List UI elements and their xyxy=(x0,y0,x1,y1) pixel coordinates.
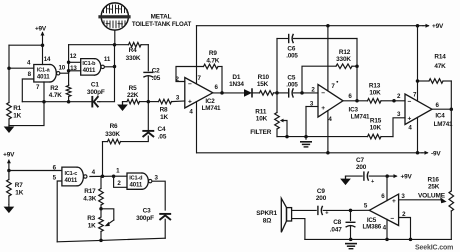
label TOILET-TANK FLOAT xyxy=(132,21,192,28)
label IC4 xyxy=(435,113,445,120)
svg-text:LM741: LM741 xyxy=(351,113,370,120)
label C5 xyxy=(287,75,295,82)
svg-text:10K: 10K xyxy=(369,90,381,97)
wire C2 column lower xyxy=(147,77,149,102)
label R9 value 4.7K xyxy=(206,57,219,64)
wire node up to C6 row xyxy=(276,39,278,93)
svg-text:200: 200 xyxy=(316,195,327,202)
wire IC3 pin4 to -9V rail xyxy=(327,111,329,153)
ground at C7 xyxy=(341,176,350,185)
svg-text:METAL: METAL xyxy=(151,14,172,21)
resistor R4 xyxy=(129,42,149,47)
svg-text:SPKR1: SPKR1 xyxy=(256,210,277,217)
svg-text:R10: R10 xyxy=(258,74,270,81)
svg-text:R2: R2 xyxy=(50,85,58,92)
node IC3 pin2 junction xyxy=(300,91,304,95)
label SPKR1 xyxy=(256,210,277,217)
IC5 plus sign xyxy=(392,198,396,205)
node R3 bottom on rail xyxy=(99,239,103,243)
label R10 value 15K xyxy=(257,81,269,88)
+9V supply top-left xyxy=(35,25,47,45)
label R8 value 1K xyxy=(160,114,168,121)
IC2 plus sign xyxy=(188,99,192,106)
pin label 11 xyxy=(104,56,111,63)
wire R13 into IC4 pin2 xyxy=(394,100,405,102)
node R2 bottom on C1 line xyxy=(67,100,71,104)
capacitor C7 xyxy=(346,172,388,185)
wire IC4 output xyxy=(432,108,451,110)
-9V rail xyxy=(197,152,422,154)
node IC4 output xyxy=(450,107,454,111)
ground under IC3 pin3 xyxy=(301,142,311,147)
watermark SeekIC.com xyxy=(415,245,453,252)
wire R15 riser to IC4 pin3 xyxy=(393,118,405,137)
resistor R7 xyxy=(7,171,12,205)
wire C9 node to IC5 pin5 xyxy=(351,209,370,211)
svg-text:4.7K: 4.7K xyxy=(49,92,62,99)
label IC5 xyxy=(367,217,377,224)
pin label 3 IC1-d xyxy=(155,175,159,182)
svg-text:D1: D1 xyxy=(232,74,240,81)
label IC3 LM741 xyxy=(351,113,370,120)
node IC3 output/C6/R12 xyxy=(355,99,359,103)
svg-text:300pF: 300pF xyxy=(136,215,154,222)
IC3 plus sign xyxy=(321,105,325,112)
svg-text:6: 6 xyxy=(436,102,440,109)
wire IC1-d output to C3 column xyxy=(152,181,165,210)
svg-text:7: 7 xyxy=(36,84,40,91)
wire C4 column xyxy=(147,102,149,130)
wire C5 to IC3 pin2 xyxy=(302,92,318,94)
node R14 tap on +9V drop xyxy=(416,79,420,83)
nand gate IC1-c 4011 xyxy=(62,167,87,186)
svg-text:200: 200 xyxy=(356,164,367,171)
wire IC3 pin3 to ground xyxy=(305,107,307,140)
svg-text:C7: C7 xyxy=(356,157,364,164)
label C7 xyxy=(356,157,364,164)
float stem wire xyxy=(114,30,116,45)
svg-text:4: 4 xyxy=(27,60,31,67)
wire IC2 pin2 feedback riser xyxy=(176,67,204,82)
label R7 value 1K xyxy=(15,190,23,197)
node pin7 wire joins C1 line xyxy=(42,100,46,104)
svg-text:330K: 330K xyxy=(105,131,120,138)
svg-text:+9V: +9V xyxy=(3,152,15,159)
label C9 value 200 xyxy=(316,195,327,202)
wire IC3 pin3 stub xyxy=(306,106,318,108)
node IC1-c output junction xyxy=(101,174,105,178)
wire +9V node to IC1-c pin6 xyxy=(9,170,62,172)
potentiometer R16 xyxy=(449,191,454,211)
svg-text:FILTER: FILTER xyxy=(250,129,272,136)
node +9V/R1 junction xyxy=(41,43,45,47)
label R3 xyxy=(87,215,95,222)
svg-text:3: 3 xyxy=(397,111,401,118)
node IC1-b pin13/out tap xyxy=(67,69,71,73)
wire IC3 output xyxy=(343,100,368,102)
node C7/+9V/pin6 xyxy=(385,174,389,178)
svg-text:1: 1 xyxy=(116,168,120,175)
capacitor C4 xyxy=(143,131,153,137)
svg-text:6: 6 xyxy=(215,84,219,91)
capacitor C1 xyxy=(92,97,99,107)
wire C1 line left segment xyxy=(22,101,92,103)
label SPKR1 8 ohm xyxy=(263,217,271,224)
svg-text:4: 4 xyxy=(92,169,96,176)
nand gate IC1-a 4011 xyxy=(34,65,60,83)
op-amp IC3 LM741 triangle xyxy=(318,84,343,117)
svg-text:−: − xyxy=(408,98,412,105)
svg-text:+: + xyxy=(188,99,192,106)
svg-text:1K: 1K xyxy=(160,114,168,121)
label C1 value 300pF xyxy=(87,89,105,96)
node R12/C6 junction xyxy=(355,64,359,68)
label R12 value 330K xyxy=(336,56,351,63)
svg-text:R5: R5 xyxy=(129,85,137,92)
svg-text:4.7K: 4.7K xyxy=(206,57,219,64)
pin label 7 IC4 xyxy=(413,92,417,99)
node filter input xyxy=(275,91,279,95)
node IC5 pin2 on rail xyxy=(409,238,413,242)
svg-text:+: + xyxy=(371,179,375,185)
ground bus under IC3 xyxy=(277,136,368,138)
svg-text:SeekIC.com: SeekIC.com xyxy=(415,245,453,252)
pin label 6 IC2 xyxy=(215,84,219,91)
label IC3 xyxy=(349,106,359,113)
label R15 xyxy=(370,117,382,124)
pin label 7 of IC1-a xyxy=(36,84,40,91)
nand gate IC1-d 4011 xyxy=(127,173,152,189)
+9V supply mid-left xyxy=(3,152,15,171)
label R4 value 330K xyxy=(126,55,141,62)
svg-text:LM741: LM741 xyxy=(434,121,453,128)
label R6 xyxy=(110,123,118,130)
R3 wiper arrow xyxy=(101,209,114,227)
wire R9 down to IC2 output xyxy=(221,67,223,93)
svg-text:+: + xyxy=(408,115,412,122)
svg-text:+9V: +9V xyxy=(401,174,413,181)
svg-text:TOILET-TANK FLOAT: TOILET-TANK FLOAT xyxy=(132,21,192,28)
svg-text:C1: C1 xyxy=(91,81,99,88)
pin label 4 IC1-c xyxy=(92,169,96,176)
resistor R6 xyxy=(103,139,121,144)
pin label 8 xyxy=(28,71,32,78)
svg-text:C2: C2 xyxy=(152,68,160,75)
label R5 xyxy=(129,85,137,92)
svg-text:11: 11 xyxy=(104,56,111,63)
pin label 6 IC4 xyxy=(436,102,440,109)
pin label 2 IC5 xyxy=(402,211,406,218)
wire C4 to R6 corner xyxy=(121,136,149,142)
label R2 xyxy=(50,85,58,92)
resistor R17 xyxy=(99,176,104,209)
pin label 1 IC1-d xyxy=(116,168,120,175)
resistor R2 xyxy=(66,85,71,102)
node IC4 pin4 on -9V rail xyxy=(416,151,420,155)
diode D1 1N34 xyxy=(244,89,260,97)
svg-text:10K: 10K xyxy=(256,116,268,123)
svg-text:14: 14 xyxy=(44,56,51,63)
wire +9V to R1 column xyxy=(9,44,43,46)
node R1/pin4 junction xyxy=(7,66,11,70)
label R1 value 1K xyxy=(13,112,21,119)
top +9V rail xyxy=(197,25,424,27)
resistor R12 xyxy=(336,64,357,69)
svg-text:C6: C6 xyxy=(287,46,295,53)
label C6 xyxy=(287,46,295,53)
svg-text:R3: R3 xyxy=(87,215,95,222)
IC4 plus sign xyxy=(408,115,412,122)
svg-text:1K: 1K xyxy=(15,190,23,197)
metal toilet-tank float (ball sensor) xyxy=(98,3,130,30)
wire IC2 pin7 to +9V rail xyxy=(196,26,198,84)
svg-text:C8: C8 xyxy=(333,219,341,226)
wire C3 to bottom rail xyxy=(164,219,166,238)
node rail IC3 pin7 xyxy=(326,24,330,28)
svg-text:LM386: LM386 xyxy=(363,223,382,230)
capacitor C9 xyxy=(318,206,351,216)
svg-text:3: 3 xyxy=(155,175,159,182)
svg-text:R11: R11 xyxy=(255,108,267,115)
svg-text:4: 4 xyxy=(328,116,332,123)
pin label 10 xyxy=(59,64,66,71)
svg-text:22K: 22K xyxy=(127,92,139,99)
label R6 value 330K xyxy=(105,131,120,138)
wire IC1-c output xyxy=(90,175,114,177)
wire to R8 xyxy=(148,101,158,103)
pin label 2 IC1-d xyxy=(117,180,121,187)
svg-text:2: 2 xyxy=(117,180,121,187)
op-amp IC2 LM741 triangle xyxy=(185,78,213,109)
svg-text:−: − xyxy=(390,216,394,223)
pin label 3 IC2 xyxy=(176,94,180,101)
label C8 xyxy=(333,219,341,226)
pin label 7 IC3 xyxy=(331,81,338,90)
label R14 value 47K xyxy=(434,63,446,70)
wire IC1-a pin7 ground drop xyxy=(9,82,44,126)
label C5 value .005 xyxy=(286,82,298,89)
pin label 6 IC1-c xyxy=(53,165,57,172)
label R17 xyxy=(84,188,96,195)
label R5 value 22K xyxy=(127,92,139,99)
wire IC1-a output to node xyxy=(60,72,69,74)
svg-text:4011: 4011 xyxy=(64,177,77,184)
svg-text:6: 6 xyxy=(348,93,352,100)
svg-text:1K: 1K xyxy=(13,112,21,119)
svg-text:6: 6 xyxy=(381,193,385,200)
svg-text:3: 3 xyxy=(401,193,405,200)
svg-text:.05: .05 xyxy=(158,134,167,141)
ground below bottom rail xyxy=(346,244,356,249)
label R14 xyxy=(434,54,446,61)
svg-text:R1: R1 xyxy=(13,105,21,112)
label C3 xyxy=(143,207,151,214)
pin label 5 IC1-c xyxy=(53,175,57,182)
svg-text:300pF: 300pF xyxy=(87,89,105,96)
svg-text:4011: 4011 xyxy=(129,181,142,188)
svg-text:4: 4 xyxy=(408,125,412,132)
pin label 4 IC2 xyxy=(189,108,193,115)
svg-text:R12: R12 xyxy=(339,49,351,56)
label C3 value 300pF xyxy=(136,215,154,222)
pin label 13 xyxy=(70,65,77,72)
label R13 value 10K xyxy=(369,90,381,97)
label METAL xyxy=(151,14,172,21)
svg-text:+: + xyxy=(325,211,329,217)
label R4 xyxy=(129,47,137,54)
node pin11 to float column xyxy=(113,65,117,69)
pin label 6 IC3 xyxy=(348,93,352,100)
pin label 4 xyxy=(27,60,31,67)
label D1 xyxy=(232,74,240,81)
svg-text:47K: 47K xyxy=(434,63,446,70)
wire R6 corner down to IC1-c output node xyxy=(102,142,104,176)
svg-text:10K: 10K xyxy=(370,124,382,131)
svg-text:10: 10 xyxy=(59,64,66,71)
pin label 3 IC3 xyxy=(310,101,314,108)
label R1 xyxy=(13,105,21,112)
ground at R5 xyxy=(118,102,127,110)
nand gate IC1-b 4011 xyxy=(81,59,105,76)
IC4 minus sign xyxy=(408,98,412,105)
svg-text:R14: R14 xyxy=(434,54,446,61)
node +9V/R7/pin6 xyxy=(7,169,11,173)
svg-text:IC3: IC3 xyxy=(349,106,359,113)
IC3 minus sign xyxy=(321,90,325,97)
label D1 value 1N34 xyxy=(229,81,244,88)
svg-text:4011: 4011 xyxy=(83,67,96,74)
wire IC4 pin4 to -9V rail xyxy=(417,117,419,152)
svg-text:R6: R6 xyxy=(110,123,118,130)
svg-text:5: 5 xyxy=(53,175,57,182)
wire IC2 output xyxy=(213,92,245,94)
svg-text:R17: R17 xyxy=(84,188,96,195)
wire top oscillator line xyxy=(69,44,129,46)
label R3 value 1K xyxy=(88,223,96,230)
svg-text:+: + xyxy=(321,105,325,112)
resistor R14 xyxy=(418,79,452,84)
potentiometer R3 xyxy=(99,209,104,241)
bottom rail of output stage xyxy=(305,238,451,240)
svg-text:4: 4 xyxy=(189,108,193,115)
svg-text:VOLUME: VOLUME xyxy=(418,192,446,199)
svg-text:330K: 330K xyxy=(126,55,141,62)
pin label 2 IC4 xyxy=(397,93,401,100)
capacitor C2 xyxy=(144,72,153,77)
resistor R1 xyxy=(7,103,12,126)
svg-text:15K: 15K xyxy=(257,81,269,88)
svg-text:7: 7 xyxy=(413,92,417,99)
label IC5 LM386 xyxy=(363,223,382,230)
+9V arrow at C7 xyxy=(387,174,412,181)
resistor R10 xyxy=(260,91,278,96)
label R7 xyxy=(15,182,23,189)
resistor R9 xyxy=(204,64,223,69)
wire IC5 pin2 jog xyxy=(399,218,411,240)
wire R5 ground elbow xyxy=(123,102,128,105)
wire float column down to C1 line xyxy=(100,45,115,102)
node IC4 pin2 xyxy=(392,99,396,103)
wire IC3 pin2 feedback riser xyxy=(302,66,336,93)
capacitor C6 xyxy=(277,35,357,43)
wire lower oscillator bottom rail xyxy=(57,238,165,242)
label R11 xyxy=(255,108,267,115)
label C4 xyxy=(158,126,166,133)
label C6 value .005 xyxy=(286,53,298,60)
wire pin8 of IC1-a L-shape xyxy=(22,79,34,102)
label IC4 LM741 xyxy=(434,121,453,128)
resistor R13 xyxy=(368,99,395,104)
R11 wiper arrow xyxy=(280,119,287,137)
pin label 12 xyxy=(70,53,77,60)
node float/R4 junction xyxy=(113,43,117,47)
svg-text:R7: R7 xyxy=(15,182,23,189)
resistor R5 xyxy=(127,99,148,104)
label C4 value .05 xyxy=(158,134,167,141)
wire IC1-d pin1 xyxy=(114,175,127,177)
svg-text:3: 3 xyxy=(176,94,180,101)
svg-text:+9V: +9V xyxy=(35,25,47,32)
wire pin 12 xyxy=(69,61,81,63)
label IC2 xyxy=(205,98,215,105)
wire pin 13 xyxy=(69,70,81,72)
label FILTER xyxy=(250,129,272,136)
pin label 4 IC4 xyxy=(408,125,412,132)
svg-text:LM741: LM741 xyxy=(202,105,221,112)
wire C8 column xyxy=(350,210,352,220)
wire IC5 pin6 drop xyxy=(386,176,388,201)
label R2 value 4.7K xyxy=(49,92,62,99)
svg-text:R15: R15 xyxy=(370,117,382,124)
capacitor C3 xyxy=(160,214,170,220)
svg-text:+9V: +9V xyxy=(432,23,444,30)
svg-text:7: 7 xyxy=(331,83,335,90)
resistor R15 xyxy=(368,134,394,139)
node ground tap on bus xyxy=(304,135,308,139)
resistor R8 xyxy=(159,99,185,104)
svg-text:7: 7 xyxy=(198,75,202,82)
wire C6 down to IC3 output xyxy=(356,39,358,101)
label R10 xyxy=(258,74,270,81)
capacitor C5 xyxy=(277,89,302,97)
svg-text:8: 8 xyxy=(28,71,32,78)
svg-text:+: + xyxy=(392,198,396,205)
pin label 2 IC3 xyxy=(311,86,315,93)
op-amp IC4 LM741 triangle xyxy=(405,94,432,125)
label R11 value 10K xyxy=(256,116,268,123)
wire IC2 pin4 to -9V rail xyxy=(196,102,198,153)
svg-text:R8: R8 xyxy=(160,107,168,114)
svg-text:C5: C5 xyxy=(287,75,295,82)
svg-text:13: 13 xyxy=(70,65,77,72)
wire speaker top to C9 xyxy=(292,209,317,211)
svg-text:C4: C4 xyxy=(158,126,166,133)
label VOLUME xyxy=(418,192,446,199)
-9V label xyxy=(422,151,441,158)
label R12 xyxy=(339,49,351,56)
label C8 value .047 xyxy=(330,227,342,234)
op-amp IC5 LM386 triangle xyxy=(369,194,398,225)
ground below R1 xyxy=(4,124,13,132)
node IC3 pin4 on -9V rail xyxy=(326,151,330,155)
svg-text:R9: R9 xyxy=(209,50,217,57)
svg-text:25K: 25K xyxy=(428,184,440,191)
svg-text:−: − xyxy=(188,81,192,88)
pin label 4 IC5 xyxy=(383,224,387,231)
speaker SPKR1 xyxy=(281,198,291,232)
label R15 value 10K xyxy=(370,124,382,131)
pin label 2 IC2 xyxy=(176,76,180,83)
